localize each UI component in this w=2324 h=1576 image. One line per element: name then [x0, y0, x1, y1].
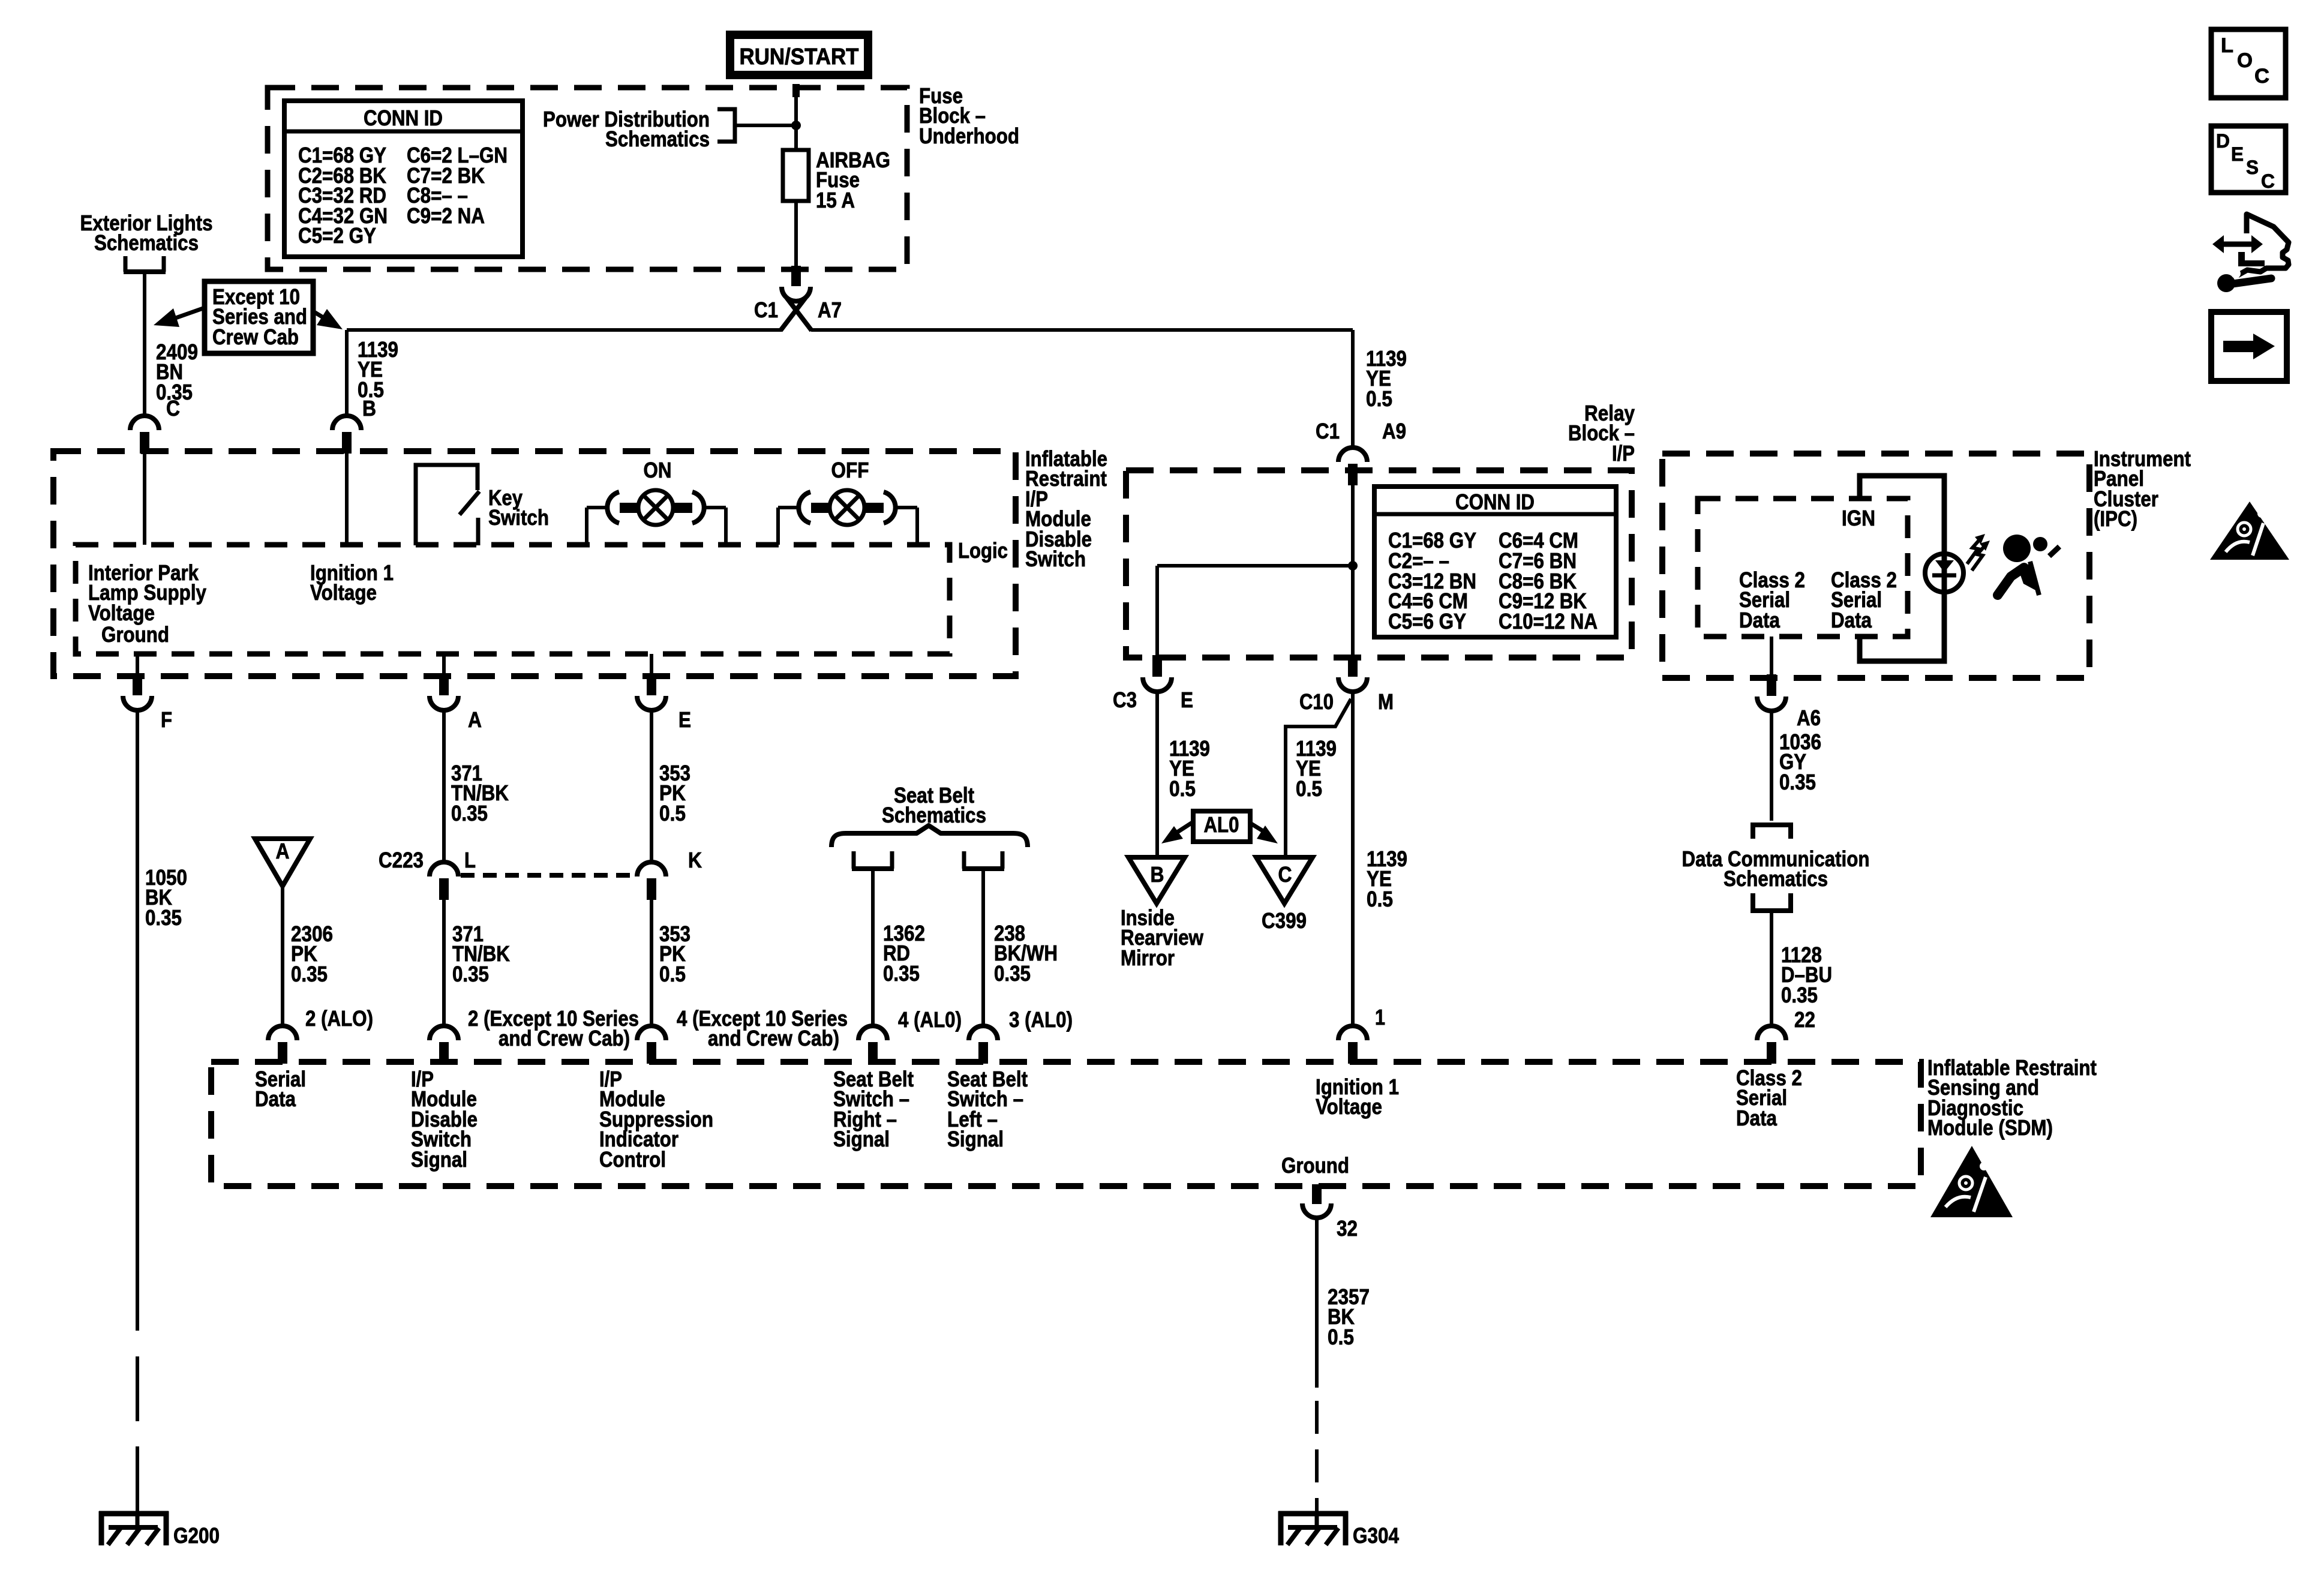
svg-text:B: B [362, 396, 376, 421]
dashed connector link L-K [461, 873, 636, 878]
off-page bracket seat belt right [854, 851, 892, 869]
wire to power distribution bracket [737, 124, 796, 127]
fuse AIRBAG 15A [794, 150, 798, 266]
svg-text:15 A: 15 A [816, 188, 855, 212]
svg-text:and Crew Cab): and Crew Cab) [708, 1026, 839, 1050]
connector C223 K [637, 862, 666, 876]
wire ignition 1 voltage [345, 453, 349, 545]
svg-text:RUN/START: RUN/START [740, 44, 859, 70]
svg-text:0.35: 0.35 [451, 801, 488, 825]
main ignition feed wire [347, 328, 782, 332]
LED light rays [1967, 538, 1981, 564]
svg-text:CONN ID: CONN ID [364, 106, 443, 130]
svg-text:Schematics: Schematics [1724, 866, 1828, 891]
svg-text:0.35: 0.35 [145, 905, 182, 930]
svg-text:AL0: AL0 [1204, 812, 1239, 837]
svg-text:0.5: 0.5 [659, 962, 686, 986]
Except 10 Series and Crew Cab callout box [205, 281, 313, 353]
connector pin 22 class2 [1757, 1026, 1786, 1040]
ground stub logic box [136, 654, 139, 674]
instrument panel cluster box [1662, 454, 2089, 678]
svg-text:Mirror: Mirror [1121, 945, 1175, 970]
wire A9 to M inside relay block [1351, 485, 1355, 658]
svg-text:Voltage: Voltage [1316, 1094, 1382, 1119]
wire class2 to A6 [1770, 637, 1773, 674]
connector pin 1 ignition [1338, 1026, 1367, 1040]
wire RUN/START to fuse [792, 84, 800, 97]
CONN ID table fuse block [284, 101, 523, 257]
svg-text:C5=6 GY: C5=6 GY [1388, 609, 1466, 634]
svg-text:(IPC): (IPC) [2094, 506, 2137, 531]
arrow right [313, 311, 327, 320]
power distribution off-page bracket [717, 109, 735, 142]
connector pin C [130, 416, 159, 430]
svg-text:Signal: Signal [833, 1127, 890, 1151]
connector pin A [439, 674, 449, 695]
junction node [791, 121, 801, 130]
arrow left [174, 308, 205, 319]
off-page bracket exterior lights [125, 256, 164, 272]
wire down to C3 [1155, 566, 1159, 658]
off-page triangle B inside rearview mirror [1128, 857, 1185, 903]
connector pin 4 belt right [858, 1026, 887, 1040]
CONN ID table relay block [1374, 487, 1616, 637]
svg-text:C1: C1 [754, 298, 778, 322]
wire 371 TN/BK lower [442, 899, 446, 1028]
svg-text:Logic: Logic [958, 538, 1008, 563]
svg-text:OFF: OFF [831, 458, 869, 482]
inflatable restraint I/P module disable switch box [53, 451, 1016, 676]
svg-text:Underhood: Underhood [919, 124, 1019, 148]
inflatable restraint sensing and diagnostic module box [211, 1062, 1921, 1186]
airbag warning pictogram [2003, 535, 2031, 562]
connector pin 2 disable [430, 1026, 458, 1040]
svg-text:0.35: 0.35 [291, 962, 328, 986]
svg-text:A7: A7 [818, 298, 842, 322]
wire 1139 M to SDM pin 1 [1351, 693, 1355, 1028]
svg-text:G200: G200 [173, 1523, 220, 1548]
connector pin E [647, 674, 656, 695]
svg-text:E: E [678, 707, 691, 732]
svg-text:0.35: 0.35 [1779, 770, 1816, 794]
svg-text:G304: G304 [1353, 1523, 1399, 1548]
connector pin 3 belt left [969, 1026, 998, 1040]
svg-text:0.5: 0.5 [1367, 887, 1393, 911]
RUN/START hot-at-all-times box [726, 31, 872, 79]
svg-text:Ground: Ground [1281, 1153, 1349, 1178]
harness routing icon [2221, 242, 2254, 247]
IPC lamp circuit wire loop [1860, 476, 1944, 661]
connector C1/A9 [1338, 448, 1367, 462]
connector A6 [1767, 674, 1776, 696]
svg-text:M: M [1378, 689, 1394, 714]
wire 2357 BK [1315, 1217, 1319, 1388]
airbag indicator LED [1925, 554, 1963, 592]
svg-text:CONN ID: CONN ID [1455, 490, 1535, 514]
IPC warning triangle [2210, 502, 2289, 560]
svg-text:Data: Data [255, 1086, 296, 1111]
wire 238 BK/WH [981, 871, 985, 1028]
svg-text:0.35: 0.35 [1781, 983, 1818, 1007]
data communication bracket top [1753, 825, 1791, 839]
SDM ground pin 32 [1312, 1184, 1322, 1204]
svg-text:C: C [2254, 65, 2269, 88]
svg-text:Schematics: Schematics [94, 230, 199, 255]
svg-text:Control: Control [599, 1147, 666, 1172]
connector pin 2 serial data [268, 1026, 297, 1040]
wire 1362 RD [871, 871, 875, 1028]
svg-text:S: S [2246, 157, 2259, 178]
AL0 arrow right [1250, 823, 1266, 833]
svg-text:C10: C10 [1299, 689, 1334, 714]
svg-text:0.5: 0.5 [1296, 776, 1322, 801]
svg-text:Switch: Switch [1025, 547, 1086, 571]
svg-text:C: C [166, 396, 180, 421]
svg-text:C: C [2261, 170, 2275, 192]
ground symbol G304 [1278, 1511, 1348, 1517]
indicator lamp ON [585, 508, 588, 545]
svg-text:Schematics: Schematics [882, 803, 986, 827]
key switch [416, 465, 478, 545]
svg-text:C10=12 NA: C10=12 NA [1499, 609, 1598, 634]
wire 1128 D-BU [1770, 913, 1773, 1028]
AL0 arrow left [1175, 822, 1193, 834]
wire 2306 PK [281, 886, 284, 1028]
svg-text:C223: C223 [379, 848, 424, 872]
svg-text:F: F [161, 707, 172, 732]
svg-text:Ground: Ground [101, 622, 169, 647]
svg-text:0.35: 0.35 [883, 961, 920, 986]
connector C10/M [1348, 655, 1358, 677]
wire 371 TN/BK upper [442, 709, 446, 864]
svg-text:4 (AL0): 4 (AL0) [898, 1007, 962, 1032]
svg-text:I/P: I/P [1612, 441, 1635, 466]
svg-text:C: C [1278, 862, 1292, 887]
svg-text:E: E [1181, 688, 1193, 712]
svg-text:Module (SDM): Module (SDM) [1927, 1115, 2053, 1140]
svg-text:2 (ALO): 2 (ALO) [305, 1006, 373, 1031]
svg-text:22: 22 [1794, 1007, 1815, 1032]
svg-text:0.5: 0.5 [1366, 386, 1392, 411]
LOC icon [2211, 29, 2286, 98]
svg-text:C3: C3 [1113, 688, 1137, 712]
svg-text:and Crew Cab): and Crew Cab) [499, 1026, 630, 1050]
wire A stub [442, 654, 446, 674]
svg-text:Switch: Switch [488, 505, 549, 530]
svg-text:Voltage: Voltage [310, 580, 377, 605]
svg-text:Data: Data [1739, 608, 1780, 632]
svg-text:IGN: IGN [1842, 506, 1875, 530]
svg-text:0.5: 0.5 [659, 801, 686, 825]
svg-text:O: O [2237, 49, 2253, 72]
svg-text:B: B [1151, 862, 1164, 887]
svg-text:K: K [688, 848, 702, 872]
wire branch to C3 [1157, 564, 1353, 568]
svg-text:32: 32 [1337, 1216, 1358, 1241]
svg-text:C9=2 NA: C9=2 NA [407, 203, 485, 228]
svg-text:Data: Data [1831, 608, 1872, 632]
wire 1050 BK [136, 711, 139, 1331]
curly brace [831, 825, 1028, 847]
svg-text:0.35: 0.35 [452, 962, 489, 986]
connector C223 L [430, 862, 458, 876]
wire E stub [650, 654, 653, 674]
svg-text:L: L [2221, 34, 2233, 57]
svg-text:Signal: Signal [411, 1147, 467, 1172]
fuse block - underhood box [268, 88, 907, 269]
svg-text:1: 1 [1375, 1005, 1385, 1029]
svg-text:A: A [468, 707, 482, 732]
connector pin 4 suppression [637, 1026, 666, 1040]
svg-text:A: A [276, 839, 290, 863]
svg-text:E: E [2231, 143, 2244, 165]
svg-text:A6: A6 [1797, 706, 1821, 730]
svg-text:0.5: 0.5 [1328, 1325, 1354, 1349]
data communication bracket bottom [1753, 893, 1791, 911]
svg-text:Voltage: Voltage [88, 601, 155, 625]
arrow icon [2211, 312, 2287, 381]
indicator lamp OFF [776, 508, 780, 545]
DESC icon [2211, 126, 2286, 193]
connector pin F [133, 674, 142, 695]
wire 353 PK lower [650, 899, 653, 1028]
svg-text:Signal: Signal [947, 1127, 1004, 1151]
connector C1/A7 fuse block output [791, 266, 801, 286]
off-page triangle C C399 [1256, 857, 1313, 903]
svg-text:C5=2 GY: C5=2 GY [298, 223, 376, 248]
svg-text:C399: C399 [1262, 908, 1307, 933]
svg-text:0.5: 0.5 [1169, 776, 1196, 801]
ground symbol G200 [99, 1511, 169, 1517]
wire 1139 E to mirror [1155, 693, 1159, 857]
svg-text:Data: Data [1736, 1106, 1777, 1130]
off-page bracket seat belt left [964, 851, 1002, 869]
wire interior park lamp supply [143, 453, 146, 545]
junction dot relay block [1348, 561, 1358, 571]
svg-text:L: L [464, 848, 476, 872]
wire 353 PK upper [650, 709, 653, 864]
svg-text:3 (AL0): 3 (AL0) [1009, 1007, 1073, 1032]
svg-text:0.35: 0.35 [994, 961, 1031, 986]
connector pin B [332, 416, 361, 430]
AL0 callout box [1193, 811, 1250, 842]
wire 2409 BN [143, 274, 146, 418]
connector C3/E [1152, 655, 1162, 677]
IPC inner box [1698, 499, 1908, 637]
svg-text:Schematics: Schematics [605, 127, 710, 151]
off-page triangle A (serial data) [255, 839, 310, 886]
svg-text:ON: ON [644, 458, 672, 482]
logic inner box [76, 545, 950, 654]
relay block I/P box [1126, 470, 1632, 658]
svg-text:D: D [2216, 130, 2230, 152]
svg-text:A9: A9 [1382, 419, 1406, 443]
wire 1139 C jog [1286, 699, 1351, 857]
svg-text:C1: C1 [1316, 419, 1340, 443]
SDM warning triangle [1930, 1146, 2013, 1217]
svg-text:Crew Cab: Crew Cab [212, 325, 299, 349]
